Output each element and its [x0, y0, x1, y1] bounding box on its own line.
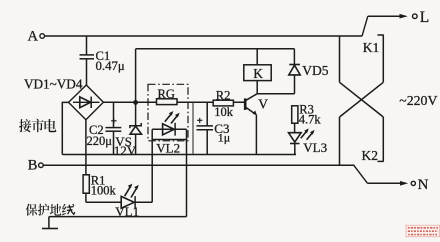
svg-text:10k: 10k — [214, 105, 234, 119]
svg-text:VD1~VD4: VD1~VD4 — [24, 77, 83, 92]
svg-text:VL2: VL2 — [156, 141, 180, 156]
svg-text:R2: R2 — [216, 88, 231, 102]
svg-text:+: + — [111, 115, 117, 127]
svg-text:N: N — [418, 177, 429, 193]
svg-text:12V: 12V — [114, 143, 137, 158]
svg-text:K1: K1 — [363, 40, 380, 55]
svg-text:VL3: VL3 — [303, 140, 327, 155]
svg-text:1μ: 1μ — [218, 131, 230, 145]
svg-text:100k: 100k — [91, 184, 117, 198]
svg-text:~220V: ~220V — [399, 93, 437, 108]
svg-text:B: B — [28, 158, 38, 174]
svg-text:+: + — [197, 116, 203, 127]
svg-text:K2: K2 — [362, 148, 379, 163]
svg-text:RG: RG — [158, 87, 175, 101]
svg-text:0.47μ: 0.47μ — [96, 59, 125, 73]
svg-text:L: L — [420, 9, 429, 26]
svg-text:4.7k: 4.7k — [299, 113, 322, 127]
svg-text:K: K — [253, 66, 263, 81]
svg-text:V: V — [258, 97, 268, 112]
svg-text:A: A — [28, 29, 39, 45]
svg-text:220μ: 220μ — [87, 134, 113, 148]
svg-text:VD5: VD5 — [302, 63, 328, 78]
